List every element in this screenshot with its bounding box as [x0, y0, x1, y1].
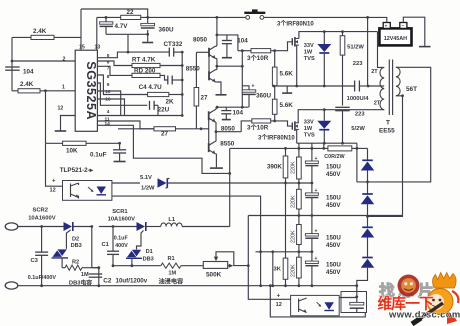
- svg-text:3个IRF80N10: 3个IRF80N10: [258, 134, 295, 142]
- svg-text:12: 12: [276, 302, 282, 308]
- wire pin13 to rail B: [96, 17, 98, 50]
- svg-text:12V45AH: 12V45AH: [384, 36, 407, 42]
- wire M2 source: [296, 129, 298, 143]
- wire D5-D6: [367, 171, 369, 195]
- capacitor 104 (driver2): [225, 107, 227, 110]
- svg-text:CT332: CT332: [164, 41, 183, 48]
- svg-text:DB3: DB3: [143, 257, 154, 263]
- U3 LED: [324, 302, 334, 309]
- svg-text:2T: 2T: [374, 101, 381, 107]
- wire pin15 to rail A: [80, 9, 82, 50]
- wire bottom loop: [270, 286, 365, 317]
- svg-text:1M: 1M: [168, 271, 176, 277]
- capacitor 104 (driver1): [226, 35, 228, 40]
- node rail B driver tap: [216, 16, 219, 19]
- svg-text:3个10R: 3个10R: [247, 123, 269, 131]
- resistor 51/2W snubber: [341, 30, 344, 33]
- svg-text:104: 104: [233, 109, 244, 116]
- svg-text:9: 9: [107, 82, 110, 88]
- capacitor C-150U #1: [311, 148, 313, 161]
- capacitor 1000U/4: [354, 81, 356, 92]
- wire SCR2 gate: [66, 230, 70, 249]
- capacitor 223 snubber: [335, 106, 350, 108]
- svg-text:L1: L1: [168, 217, 176, 223]
- svg-text:390K: 390K: [267, 164, 283, 171]
- svg-text:150U: 150U: [326, 235, 341, 242]
- ground Q4: [210, 167, 223, 169]
- wire rail B to center tap: [366, 16, 369, 19]
- svg-text:22U: 22U: [158, 107, 170, 114]
- output capacitor box: [341, 292, 367, 313]
- tvs D-TVS1 33V: [323, 30, 326, 33]
- node A: [44, 89, 47, 92]
- svg-text:220K: 220K: [290, 161, 296, 174]
- capacitor C2: [89, 273, 103, 275]
- svg-text:33V: 33V: [304, 43, 314, 49]
- svg-text:油浸电容: 油浸电容: [159, 278, 185, 286]
- svg-text:3个10R: 3个10R: [247, 54, 269, 62]
- wire Q1 base: [196, 51, 209, 53]
- wire input to SCR2: [18, 226, 64, 228]
- svg-text:14: 14: [105, 121, 111, 127]
- resistor 3x10R (lower): [252, 119, 271, 123]
- resistor 27 (vertical): [195, 52, 197, 87]
- resistor 220K #1: [298, 148, 300, 157]
- diode D7: [362, 226, 373, 228]
- optocoupler U3 box: [291, 295, 340, 315]
- wire opto1 emitter drop: [112, 196, 261, 286]
- capacitor C-150U #3: [305, 234, 318, 236]
- svg-text:4: 4: [107, 109, 110, 115]
- stub source-bus links: [298, 143, 300, 148]
- svg-text:TLP521-2-▸: TLP521-2-▸: [60, 167, 94, 174]
- wire gate1 column: [241, 51, 243, 107]
- wire opto2 out: [339, 297, 357, 299]
- svg-text:5.6K: 5.6K: [280, 71, 294, 78]
- wire secondary top: [357, 67, 431, 182]
- svg-text:150U: 150U: [326, 262, 341, 269]
- transformer T primary winding: [378, 32, 385, 68]
- svg-text:R2: R2: [72, 259, 79, 265]
- terminal input 2: [5, 282, 18, 289]
- wire zener to node: [106, 33, 148, 35]
- svg-text:13: 13: [95, 44, 101, 50]
- wire D6-D7: [367, 204, 369, 227]
- wire opto2 feed: [248, 216, 290, 300]
- wire D2 to R2: [61, 258, 63, 268]
- wire SCR2 to node: [73, 226, 92, 228]
- wire pot out: [228, 265, 230, 267]
- wire ladder row4: [256, 251, 312, 253]
- svg-text:104: 104: [23, 69, 34, 76]
- wire battery -: [403, 17, 425, 46]
- resistor 5.6K (upper): [274, 51, 276, 67]
- svg-text:2T: 2T: [371, 69, 378, 75]
- wire SCR1 gate: [137, 231, 144, 250]
- svg-text:2K: 2K: [166, 99, 175, 106]
- svg-text:400V: 400V: [115, 243, 128, 249]
- svg-text:1W: 1W: [304, 126, 313, 132]
- svg-text:10A1600V: 10A1600V: [28, 216, 56, 222]
- svg-text:1M: 1M: [81, 272, 89, 278]
- ground 0.1uF: [114, 161, 126, 163]
- svg-text:+: +: [277, 293, 281, 299]
- svg-text:+: +: [52, 179, 56, 185]
- svg-text:51/2W: 51/2W: [347, 45, 364, 51]
- svg-text:450V: 450V: [326, 202, 341, 209]
- svg-text:360U: 360U: [256, 93, 272, 100]
- svg-text:SG3525A: SG3525A: [84, 61, 98, 120]
- wire node A down: [45, 91, 47, 144]
- wire ladder row3: [248, 215, 402, 217]
- svg-text:5/2W: 5/2W: [351, 126, 365, 132]
- wire driver1 supply: [216, 17, 218, 35]
- wire pot wiper path: [216, 252, 248, 266]
- ground pin12: [55, 130, 67, 132]
- wire left column: [11, 37, 13, 90]
- svg-text:+: +: [385, 23, 388, 28]
- wire HV bus row1: [230, 147, 328, 149]
- ground bus vertical: [181, 52, 183, 115]
- U3 phototransistor: [298, 299, 300, 313]
- diode D6: [362, 193, 373, 195]
- svg-text:104: 104: [237, 37, 248, 44]
- svg-text:D1: D1: [146, 249, 153, 255]
- terminal input 1: [5, 223, 18, 230]
- diode D5: [367, 148, 369, 160]
- svg-text:33V: 33V: [304, 120, 314, 126]
- node rail B zener tap: [105, 16, 108, 19]
- svg-text:10K: 10K: [66, 148, 78, 155]
- U2 LED: [97, 187, 107, 195]
- svg-text:10uf/1200v: 10uf/1200v: [116, 278, 148, 285]
- diode D8: [362, 257, 373, 259]
- wire rail B (+12V): [97, 16, 246, 18]
- svg-text:450V: 450V: [326, 242, 341, 249]
- svg-text:C3: C3: [31, 258, 39, 264]
- optocoupler U2 box: [63, 181, 112, 201]
- svg-text:3K: 3K: [274, 267, 282, 273]
- watermark mascot: [412, 273, 458, 325]
- wire opto out: [112, 182, 140, 184]
- ground 360U: [142, 42, 153, 44]
- ground symbol primary: [286, 86, 288, 93]
- wire M2 drain: [298, 110, 384, 123]
- wire C2 column: [91, 227, 93, 268]
- svg-text:T: T: [386, 120, 390, 127]
- wire D7-D8: [367, 238, 369, 258]
- svg-text:2.4K: 2.4K: [33, 28, 47, 35]
- svg-text:2.4K: 2.4K: [20, 81, 34, 88]
- svg-text:8: 8: [107, 74, 110, 80]
- svg-text:D2: D2: [72, 237, 79, 243]
- capacitor C3: [41, 227, 43, 253]
- wire Q2 emitter: [217, 82, 221, 94]
- wire D1 down: [131, 258, 133, 265]
- svg-text:C2: C2: [103, 278, 112, 285]
- wire gate2 to M2: [271, 121, 293, 126]
- wire source/return line: [297, 142, 357, 144]
- wire node A to opto: [46, 143, 63, 186]
- potentiometer 500K: [203, 262, 227, 269]
- ground 104 driver2: [222, 119, 231, 121]
- wire 104 bus driver2: [216, 106, 249, 108]
- svg-text:EE55: EE55: [379, 128, 395, 135]
- svg-text:0.1uF/400V: 0.1uF/400V: [28, 275, 57, 281]
- resistor 22: [121, 15, 141, 19]
- svg-text:220K: 220K: [290, 264, 296, 277]
- svg-text:8550: 8550: [186, 66, 201, 73]
- svg-text:1/2W: 1/2W: [141, 186, 155, 192]
- wire rect column top: [356, 147, 359, 150]
- svg-text:5.6K: 5.6K: [280, 102, 294, 109]
- svg-text:16: 16: [105, 97, 111, 103]
- svg-text:4.7V: 4.7V: [115, 23, 129, 30]
- svg-text:+: +: [252, 84, 255, 90]
- svg-text:450V: 450V: [326, 269, 341, 276]
- battery terminal +: [383, 23, 390, 29]
- svg-text:C0R/2W: C0R/2W: [324, 154, 345, 160]
- svg-text:2: 2: [63, 57, 66, 63]
- scr SCR2: [64, 222, 73, 231]
- wire zener to divider: [168, 182, 286, 184]
- capacitor 104 (left): [5, 66, 20, 68]
- resistor 10K: [46, 142, 63, 144]
- resistor 220K #3: [297, 225, 302, 245]
- capacitor 360U (driver rail): [242, 86, 249, 90]
- resistor 3K: [283, 258, 288, 279]
- tvs D-TVS2 33V: [323, 108, 326, 111]
- node 0.1uF: [118, 142, 121, 145]
- svg-text:+: +: [315, 188, 318, 194]
- svg-text:22: 22: [127, 9, 135, 16]
- svg-text:1: 1: [62, 85, 65, 91]
- wire bottom bus: [18, 285, 357, 287]
- wire R1 row: [113, 265, 161, 267]
- svg-text:220K: 220K: [290, 195, 296, 208]
- svg-text:27: 27: [161, 131, 169, 138]
- resistor 2.4K (upper): [12, 36, 31, 38]
- transistor M1 IRF80N10: [291, 38, 293, 45]
- svg-text:15: 15: [79, 44, 85, 50]
- switch S1: [246, 16, 250, 20]
- svg-text:1000U/4: 1000U/4: [347, 96, 370, 102]
- wire gate2 feed: [241, 121, 252, 132]
- wire secondary bottom: [368, 96, 403, 217]
- transformer T core: [388, 60, 390, 116]
- transformer T secondary winding: [396, 67, 400, 96]
- svg-text:0.1uF: 0.1uF: [114, 236, 129, 242]
- svg-text:RT 4.7K: RT 4.7K: [132, 56, 156, 63]
- resistor 2K: [148, 92, 169, 96]
- svg-text:www.dzsc.com: www.dzsc.com: [388, 309, 460, 320]
- resistor 5.6K (lower): [274, 86, 276, 99]
- svg-text:SCR2: SCR2: [33, 208, 48, 214]
- resistor 3x10R (upper): [251, 49, 271, 53]
- svg-text:150U: 150U: [326, 195, 341, 202]
- svg-text:+: +: [315, 256, 318, 262]
- wire R1 to pot: [181, 265, 203, 267]
- wire base bus driver1: [208, 48, 210, 80]
- svg-text:450V: 450V: [326, 171, 341, 178]
- scr SCR1: [137, 222, 146, 231]
- node pin2 wire: [11, 60, 14, 63]
- svg-text:1W: 1W: [304, 50, 313, 56]
- resistor 50R/2W: [328, 146, 352, 151]
- svg-text:10: 10: [105, 89, 111, 95]
- svg-text:27: 27: [201, 95, 209, 102]
- wire totem2 mid: [215, 122, 217, 141]
- svg-text:5.1V: 5.1V: [140, 175, 152, 181]
- wire drop x272: [272, 252, 274, 286]
- battery terminal -: [400, 23, 407, 29]
- svg-text:SCR1: SCR1: [112, 209, 128, 215]
- battery BT1 12V45AH body: [379, 28, 411, 45]
- node center tap: [367, 85, 370, 88]
- svg-text:8050: 8050: [193, 36, 208, 43]
- svg-text:DB3: DB3: [71, 243, 82, 249]
- wire base bus driver2: [208, 112, 210, 152]
- wire node to SCR1: [99, 226, 137, 228]
- svg-text:R1: R1: [168, 256, 175, 262]
- wire D8 out: [357, 268, 368, 304]
- svg-text:223: 223: [353, 61, 363, 67]
- ground Q2: [216, 94, 227, 96]
- svg-text:C1: C1: [102, 242, 110, 248]
- svg-text:TVS: TVS: [304, 56, 315, 62]
- svg-text:150U: 150U: [326, 164, 341, 171]
- wire 104 branch: [217, 35, 238, 51]
- wire rail A (Vref): [81, 9, 148, 17]
- ground 104 driver1: [222, 57, 232, 59]
- svg-text:8550: 8550: [220, 140, 235, 147]
- svg-text:12: 12: [50, 188, 56, 194]
- resistor 390K: [285, 148, 287, 156]
- watermark seal: [398, 275, 420, 297]
- svg-text:3个IRF80N10: 3个IRF80N10: [277, 20, 314, 28]
- wire totem1 mid: [216, 59, 218, 70]
- transistor M2 IRF80N10: [291, 123, 293, 130]
- resistor 220K #4: [297, 257, 302, 278]
- svg-text:12: 12: [58, 106, 64, 112]
- capacitor 360U (top): [147, 17, 149, 23]
- capacitor output sense: [350, 302, 364, 305]
- resistor 220K #2: [297, 189, 302, 209]
- svg-text:+: +: [315, 229, 318, 235]
- svg-text:TVS: TVS: [304, 133, 315, 139]
- wire center tap: [368, 85, 384, 87]
- svg-text:56T: 56T: [406, 86, 417, 93]
- wire Q4 emitter: [215, 154, 217, 168]
- ground battery: [419, 46, 431, 48]
- wire drop x128: [127, 34, 129, 52]
- resistor 27 (horizontal): [118, 128, 154, 130]
- svg-text:220K: 220K: [290, 230, 296, 243]
- wire Q3 collector: [215, 107, 217, 109]
- svg-text:0.1uF: 0.1uF: [90, 152, 107, 159]
- U2 phototransistor: [70, 184, 72, 198]
- wire gate1 to M1: [271, 42, 293, 51]
- capacitor C-150U #4: [305, 261, 318, 263]
- svg-text:+: +: [315, 156, 318, 162]
- svg-text:C4 4.7U: C4 4.7U: [139, 84, 163, 91]
- ground bus primary: [274, 85, 356, 87]
- svg-text:360U: 360U: [159, 27, 175, 34]
- node rail B cap tap: [146, 16, 149, 19]
- svg-text:223: 223: [355, 112, 365, 118]
- wire battery +: [386, 17, 388, 22]
- capacitor 22U: [149, 101, 151, 110]
- capacitor C-150U #2: [305, 193, 318, 195]
- op-amp U1 SG3525A body: [75, 50, 97, 131]
- wire ladder row2: [284, 182, 287, 185]
- wire M1 drain: [299, 32, 378, 39]
- wire L1 column: [229, 148, 231, 226]
- svg-text:500K: 500K: [206, 272, 222, 279]
- svg-text:10A1600V: 10A1600V: [108, 217, 136, 223]
- wire M1 source: [296, 45, 298, 86]
- svg-text:−: −: [402, 23, 405, 28]
- zener 4.7V: [100, 22, 113, 24]
